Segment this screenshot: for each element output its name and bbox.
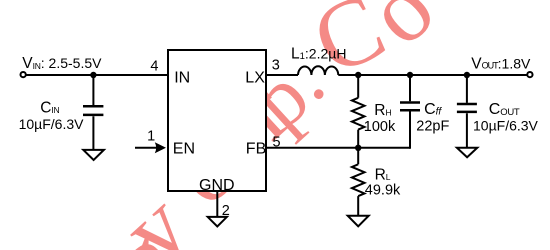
svg-text:L1:2.2µH: L1:2.2µH — [291, 45, 346, 62]
svg-text:49.9k: 49.9k — [365, 182, 401, 198]
svg-text:10µF/6.3V: 10µF/6.3V — [473, 118, 539, 134]
svg-text:IN: IN — [174, 69, 190, 86]
svg-text:5: 5 — [273, 134, 281, 150]
svg-text:1: 1 — [147, 128, 155, 144]
svg-text:100k: 100k — [364, 119, 396, 135]
svg-text:FB: FB — [246, 141, 266, 158]
svg-text:2: 2 — [222, 203, 230, 219]
svg-text:3: 3 — [272, 58, 280, 74]
svg-text:22pF: 22pF — [416, 118, 449, 134]
svg-text:LX: LX — [245, 69, 265, 86]
svg-text:VOUT:1.8V: VOUT:1.8V — [471, 55, 531, 72]
svg-text:GND: GND — [199, 177, 235, 194]
svg-text:10µF/6.3V: 10µF/6.3V — [19, 116, 85, 132]
svg-text:4: 4 — [150, 59, 158, 75]
svg-text:EN: EN — [173, 141, 195, 158]
